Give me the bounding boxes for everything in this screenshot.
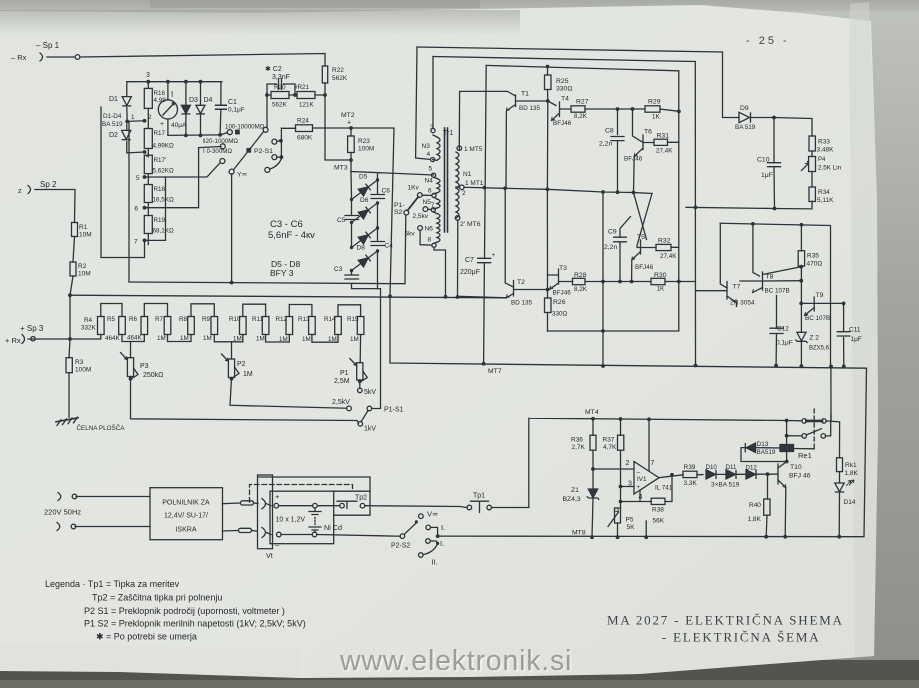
svg-text:Tr1: Tr1 [443, 130, 453, 137]
svg-text:4: 4 [146, 153, 150, 160]
svg-text:1 MT5: 1 MT5 [464, 146, 483, 153]
svg-text:5kv: 5kv [405, 231, 416, 238]
svg-text:R17': R17' [154, 157, 167, 164]
svg-text:5,6nF - 4кv: 5,6nF - 4кv [268, 230, 315, 241]
svg-text:2,7K: 2,7K [572, 444, 586, 451]
svg-text:1: 1 [131, 114, 135, 121]
svg-text:+ Rx: + Rx [5, 336, 21, 345]
svg-text:ČELNA PLOŠČA: ČELNA PLOŠČA [77, 423, 126, 432]
svg-text:562K: 562K [332, 75, 348, 82]
svg-text:C4: C4 [385, 243, 394, 250]
svg-text:#R21: #R21 [294, 84, 310, 91]
svg-text:I 0-300MΩ: I 0-300MΩ [203, 148, 232, 155]
svg-text:10M: 10M [79, 232, 92, 239]
svg-text:R36: R36 [571, 437, 583, 444]
svg-text:– Rx: – Rx [11, 53, 27, 62]
svg-text:BFJ46: BFJ46 [553, 120, 572, 127]
svg-text:R8: R8 [179, 316, 188, 323]
svg-text:D6: D6 [360, 197, 369, 204]
svg-text:1M: 1M [328, 336, 337, 343]
svg-text:V≃: V≃ [427, 510, 438, 519]
svg-text:I.: I. [440, 539, 444, 548]
svg-text:N4: N4 [425, 178, 434, 185]
svg-text:BFJ46: BFJ46 [553, 290, 572, 297]
svg-text:2: 2 [148, 114, 152, 121]
svg-text:T1: T1 [521, 91, 529, 98]
svg-text:4: 4 [427, 151, 431, 158]
svg-text:Z 2: Z 2 [810, 335, 820, 342]
svg-text:6: 6 [135, 206, 139, 213]
svg-text:7: 7 [651, 460, 655, 467]
svg-text:12,4V/ SU-17/: 12,4V/ SU-17/ [164, 513, 208, 520]
svg-text:T2: T2 [517, 279, 525, 286]
svg-text:R7: R7 [155, 316, 164, 323]
svg-text:27,4K: 27,4K [656, 148, 673, 155]
svg-text:R26: R26 [553, 299, 566, 306]
svg-text:II.: II. [432, 558, 438, 567]
svg-text:56K: 56K [653, 518, 665, 525]
svg-text:+: + [275, 492, 280, 501]
svg-text:D9: D9 [740, 105, 749, 112]
svg-text:1M: 1M [350, 336, 359, 343]
svg-text:4,7K: 4,7K [603, 444, 617, 451]
svg-text:C12: C12 [777, 326, 789, 333]
svg-text:BZ4,3: BZ4,3 [563, 496, 581, 503]
svg-text:P1 S2 = Preklopnik merilnih: P1 S2 = Preklopnik merilnih napetosti (1… [84, 619, 306, 629]
svg-text:1M: 1M [279, 336, 288, 343]
svg-text:R3: R3 [75, 359, 84, 366]
svg-text:Tp2: Tp2 [355, 495, 367, 502]
svg-text:BFJ46: BFJ46 [635, 264, 654, 271]
svg-text:BC 107B: BC 107B [765, 288, 790, 295]
svg-text:0,1μF: 0,1μF [228, 107, 245, 114]
svg-text:D5: D5 [359, 174, 368, 181]
svg-text:2: 2 [462, 190, 466, 197]
svg-text:Z1: Z1 [571, 487, 579, 494]
svg-text:D14: D14 [844, 499, 856, 506]
svg-text:562K: 562K [272, 102, 288, 109]
svg-text:R33: R33 [818, 139, 830, 146]
svg-text:ISKRA: ISKRA [175, 527, 196, 534]
svg-text:P2: P2 [237, 361, 246, 368]
svg-text:R9: R9 [202, 316, 211, 323]
svg-text:R29: R29 [648, 99, 661, 106]
svg-text:+ Sp 3: + Sp 3 [20, 324, 44, 333]
svg-text:- 25 -: - 25 - [746, 35, 790, 47]
svg-text:R14: R14 [324, 316, 336, 323]
svg-text:R28: R28 [574, 272, 587, 279]
svg-text:2,2n: 2,2n [599, 141, 612, 148]
svg-text:1M: 1M [243, 371, 253, 378]
svg-text:T8: T8 [766, 274, 774, 281]
svg-text:2,5M: 2,5M [334, 378, 350, 385]
svg-text:R20: R20 [274, 84, 286, 91]
svg-text:T10: T10 [790, 464, 802, 471]
svg-text:IL 741: IL 741 [655, 485, 673, 492]
svg-text:BC 107B: BC 107B [805, 315, 830, 322]
svg-text:Tp1: Tp1 [473, 493, 485, 500]
svg-text:T5: T5 [637, 234, 645, 241]
svg-text:1K: 1K [652, 114, 661, 121]
svg-text:- ELEKTRIČNA ŠEMA: - ELEKTRIČNA ŠEMA [662, 630, 820, 645]
svg-text:R23: R23 [358, 138, 370, 145]
svg-text:D11: D11 [726, 464, 737, 471]
svg-text:N1: N1 [463, 171, 472, 178]
svg-text:1M: 1M [256, 336, 265, 343]
svg-text:BA519: BA519 [757, 449, 776, 456]
svg-text:R24: R24 [297, 118, 309, 125]
svg-text:MT4: MT4 [585, 409, 599, 416]
svg-text:220μF: 220μF [460, 269, 480, 276]
svg-text:Legenda · Tp1 = Tipka za meri: Legenda · Tp1 = Tipka za meritev [45, 579, 180, 589]
svg-text:1μF: 1μF [851, 336, 862, 343]
svg-text:R1: R1 [79, 224, 88, 231]
svg-text:C11: C11 [849, 327, 861, 334]
svg-text:✱ C2: ✱ C2 [265, 65, 282, 73]
svg-text:Tp2 = Zaščitna tipka pri po: Tp2 = Zaščitna tipka pri polnenju [92, 593, 222, 603]
svg-text:I: I [171, 90, 173, 99]
svg-text:+: + [347, 120, 351, 127]
svg-text:MT3: MT3 [334, 165, 348, 172]
svg-text:D10: D10 [706, 464, 718, 471]
svg-text:100M: 100M [75, 367, 91, 374]
svg-text:5,11K: 5,11K [817, 197, 834, 204]
svg-text:R18: R18 [154, 186, 166, 193]
svg-text:BZX5,6: BZX5,6 [809, 346, 830, 352]
svg-text:3: 3 [628, 481, 632, 488]
svg-text:R31: R31 [657, 133, 670, 140]
svg-text:BFJ 46: BFJ 46 [789, 473, 811, 480]
svg-text:P5: P5 [626, 517, 634, 524]
svg-text:T7: T7 [733, 284, 741, 291]
svg-text:R13: R13 [298, 316, 310, 323]
svg-text:464K: 464K [105, 335, 121, 342]
svg-text:R6: R6 [129, 316, 138, 323]
svg-text:5: 5 [429, 166, 433, 173]
svg-text:MT7: MT7 [488, 368, 502, 375]
svg-text:R12: R12 [276, 316, 288, 323]
svg-text:C8: C8 [605, 128, 614, 135]
svg-text:R5: R5 [107, 316, 116, 323]
svg-text:1M: 1M [233, 336, 242, 343]
svg-text:8,2K: 8,2K [574, 113, 588, 120]
svg-text:D4: D4 [204, 97, 213, 104]
svg-text:C9: C9 [608, 229, 617, 236]
svg-text:2: 2 [626, 460, 630, 467]
svg-text:MT8: MT8 [572, 530, 586, 537]
svg-text:100-10000MΩ: 100-10000MΩ [225, 124, 265, 131]
svg-text:BFJ46: BFJ46 [624, 156, 643, 163]
svg-text:2' MT6: 2' MT6 [460, 221, 481, 228]
svg-text:P3: P3 [140, 363, 149, 370]
svg-text:4,99–: 4,99– [154, 97, 170, 104]
svg-text:D1: D1 [109, 96, 118, 103]
svg-text:3: 3 [430, 124, 434, 131]
svg-text:C3: C3 [334, 266, 343, 273]
svg-text:121K: 121K [299, 102, 315, 109]
svg-text:D8: D8 [357, 245, 366, 252]
svg-text:330Ω: 330Ω [552, 311, 568, 318]
svg-text:N6: N6 [425, 226, 434, 233]
svg-text:P2 S1 = Preklopnik področij: P2 S1 = Preklopnik področij (upornosti, … [84, 606, 285, 616]
svg-text:1Kv: 1Kv [408, 185, 420, 192]
svg-text:8,2K: 8,2K [574, 286, 588, 293]
svg-text:Sp 2: Sp 2 [40, 180, 57, 189]
svg-text:3: 3 [146, 72, 150, 79]
svg-text:T3: T3 [559, 265, 567, 272]
svg-text:C1: C1 [228, 99, 237, 106]
svg-text:I.: I. [441, 523, 445, 532]
svg-text:MT2: MT2 [341, 112, 355, 119]
svg-text:P1-S1: P1-S1 [384, 407, 404, 414]
svg-text:BA 519: BA 519 [102, 121, 123, 128]
svg-text:C10: C10 [757, 157, 770, 164]
svg-text:MA 2027 - ELEKTRIČNA SHEMA: MA 2027 - ELEKTRIČNA SHEMA [607, 613, 844, 628]
svg-text:R25: R25 [556, 78, 569, 85]
svg-text:z: z [18, 186, 22, 195]
svg-text:Ni Cd: Ni Cd [324, 523, 342, 532]
svg-text:R34: R34 [818, 189, 830, 196]
svg-text:1 MT1: 1 MT1 [465, 180, 484, 187]
svg-text:7: 7 [431, 202, 435, 209]
svg-text:R40: R40 [749, 502, 761, 509]
svg-text:– Sp 1: – Sp 1 [36, 41, 60, 50]
svg-text:R38: R38 [652, 507, 664, 514]
svg-text:D13: D13 [757, 441, 769, 448]
svg-text:3×BA 519: 3×BA 519 [711, 482, 740, 489]
svg-text:8: 8 [428, 237, 432, 244]
svg-text:3,3K: 3,3K [684, 480, 698, 487]
svg-text:3,48K: 3,48K [817, 147, 835, 154]
svg-text:P4: P4 [818, 157, 826, 163]
svg-text:680K: 680K [297, 135, 313, 142]
svg-text:2,2n: 2,2n [604, 244, 617, 251]
svg-text:BA 519: BA 519 [735, 124, 756, 131]
svg-text:D1-D4: D1-D4 [103, 113, 122, 120]
svg-text:2,5kV: 2,5kV [332, 399, 350, 406]
svg-text:2,5kv: 2,5kv [413, 213, 429, 220]
svg-text:1M: 1M [180, 335, 189, 342]
svg-text:4,99KΩ: 4,99KΩ [153, 143, 174, 150]
svg-text:Vt: Vt [266, 551, 273, 560]
svg-text:332K: 332K [81, 325, 97, 332]
svg-text:1kV: 1kV [364, 426, 376, 433]
svg-text:✱ = Po potrebi se umerja: ✱ = Po potrebi se umerja [96, 632, 197, 642]
svg-text:R2: R2 [78, 263, 87, 270]
svg-text:1,8K: 1,8K [748, 516, 762, 523]
svg-text:7: 7 [134, 239, 138, 246]
svg-text:R11: R11 [252, 316, 264, 323]
svg-text:Re1: Re1 [798, 451, 812, 460]
svg-text:D3: D3 [189, 97, 198, 104]
svg-text:5K: 5K [627, 524, 636, 531]
svg-text:‖20-1000MΩ: ‖20-1000MΩ [203, 138, 238, 145]
svg-text:R16: R16 [154, 90, 166, 97]
svg-text:T6: T6 [644, 129, 652, 136]
svg-text:D2: D2 [109, 132, 118, 139]
svg-text:1M: 1M [203, 335, 212, 342]
svg-text:+: + [160, 121, 164, 128]
svg-text:2N 3054: 2N 3054 [730, 300, 755, 307]
svg-text:R10: R10 [229, 316, 241, 323]
svg-text:4: 4 [639, 494, 643, 501]
svg-text:464K: 464K [127, 335, 143, 342]
svg-text:R22: R22 [332, 67, 344, 74]
svg-text:3,3nF: 3,3nF [272, 74, 290, 81]
svg-text:5: 5 [136, 175, 140, 182]
svg-text:R32: R32 [658, 238, 671, 245]
svg-text:16,5KΩ: 16,5KΩ [153, 197, 174, 204]
svg-text:+: + [492, 252, 496, 259]
svg-text:27,4K: 27,4K [660, 253, 677, 260]
svg-text:1K: 1K [657, 286, 666, 293]
svg-text:R37: R37 [603, 437, 615, 444]
svg-text:330Ω: 330Ω [556, 86, 572, 93]
svg-text:www.elektronik.si: www.elektronik.si [339, 645, 572, 677]
svg-text:Y≃: Y≃ [237, 172, 248, 179]
svg-text:R39: R39 [684, 464, 696, 471]
svg-text:R35: R35 [807, 253, 819, 260]
svg-text:P2-S2: P2-S2 [391, 543, 411, 550]
svg-text:IV1: IV1 [637, 476, 647, 483]
svg-text:1M: 1M [302, 336, 311, 343]
svg-text:1μF: 1μF [761, 172, 773, 179]
svg-text:POLNILNIK ZA: POLNILNIK ZA [162, 500, 210, 507]
svg-text:1M: 1M [157, 335, 166, 342]
svg-text:100M: 100M [358, 146, 374, 153]
svg-text:C3 - C6: C3 - C6 [270, 219, 303, 230]
svg-text:6: 6 [428, 188, 432, 195]
svg-text:68,1KΩ: 68,1KΩ [153, 228, 174, 235]
svg-text:R30: R30 [654, 272, 667, 279]
svg-text:10 x 1,2V: 10 x 1,2V [276, 517, 306, 524]
svg-text:220V 50Hz: 220V 50Hz [44, 508, 81, 517]
svg-text:5kV: 5kV [364, 389, 376, 396]
svg-text:250kΩ: 250kΩ [143, 372, 163, 379]
svg-text:1,8K: 1,8K [845, 470, 859, 477]
svg-text:T9: T9 [816, 292, 824, 299]
svg-text:R15: R15 [347, 316, 359, 323]
svg-text:R19: R19 [154, 217, 166, 224]
svg-text:S2: S2 [394, 209, 403, 216]
svg-text:T4: T4 [561, 96, 569, 103]
svg-text:R17: R17 [154, 130, 166, 137]
svg-text:P1-: P1- [394, 202, 405, 209]
svg-text:0,1μF: 0,1μF [776, 340, 793, 347]
svg-text:BD 135: BD 135 [511, 300, 533, 307]
svg-text:+: + [637, 485, 641, 491]
svg-text:C5: C5 [337, 217, 346, 224]
svg-text:5,62KΩ: 5,62KΩ [153, 168, 174, 175]
svg-text:BFY 3: BFY 3 [270, 268, 294, 278]
svg-text:R27: R27 [576, 99, 589, 106]
svg-text:C6: C6 [382, 188, 391, 195]
svg-text:Rk1: Rk1 [845, 462, 857, 469]
svg-text:N3: N3 [422, 143, 431, 150]
svg-text:10M: 10M [78, 271, 91, 278]
svg-text:BD 135: BD 135 [519, 105, 541, 112]
svg-text:R4: R4 [84, 317, 93, 324]
svg-text:C7: C7 [465, 257, 474, 264]
svg-text:P2-S1: P2-S1 [254, 148, 273, 155]
svg-text:2,5K Lin: 2,5K Lin [818, 165, 842, 172]
svg-text:40μA: 40μA [171, 122, 187, 129]
svg-text:P1: P1 [340, 370, 349, 377]
svg-text:D12: D12 [746, 465, 758, 472]
svg-text:470Ω: 470Ω [807, 261, 823, 268]
